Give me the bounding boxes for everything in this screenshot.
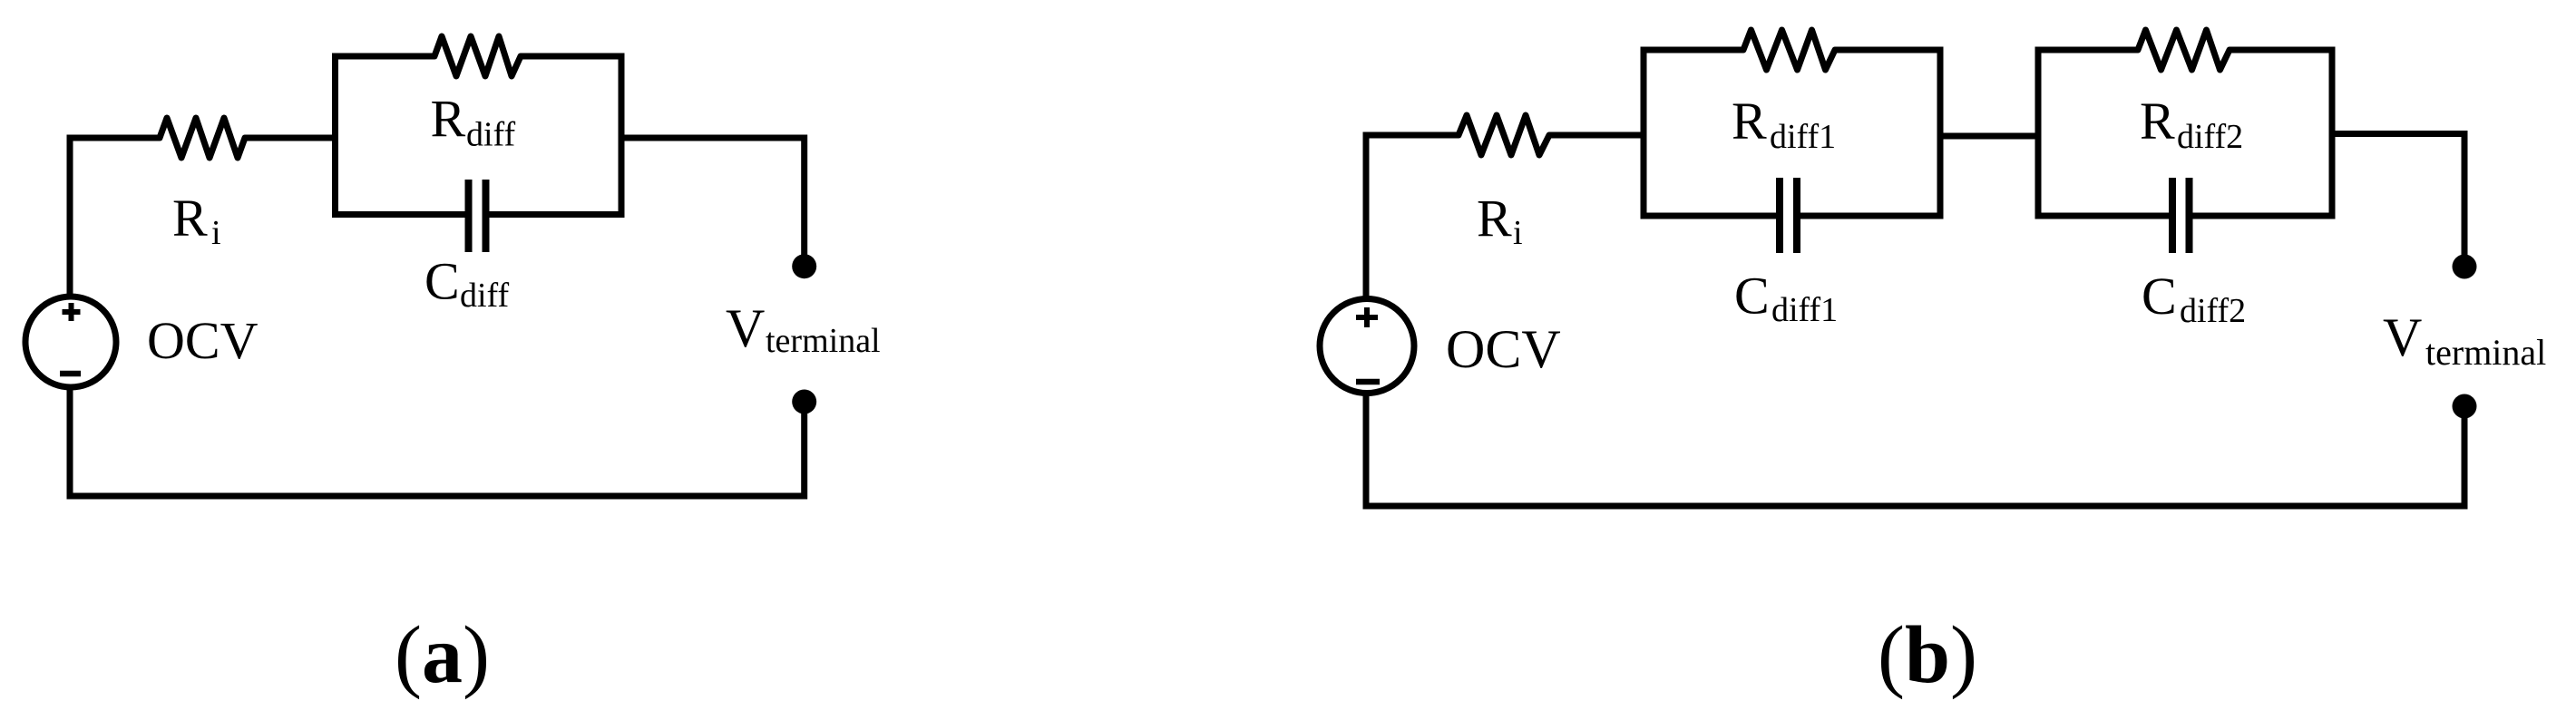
svg-text:diff2: diff2 (2177, 118, 2243, 156)
svg-text:(a): (a) (395, 610, 490, 700)
wire : box2 (b) bottom edge left segment (2035, 213, 2170, 219)
wire : circuit (b) top wire with resistor Ri zigzag (1363, 115, 1647, 155)
svg-text:OCV: OCV (147, 311, 259, 370)
plus sign of source (b) (1356, 307, 1378, 327)
wire : box1 (b) bottom edge left segment (1641, 213, 1777, 219)
svg-text:diff2: diff2 (2180, 292, 2246, 330)
svg-text:R: R (1477, 190, 1512, 248)
svg-text:C: C (424, 252, 460, 311)
svg-text:terminal: terminal (766, 322, 881, 360)
resistor R_diff1 zigzag on top edge of box1 (b) (1641, 30, 1944, 70)
svg-text:diff1: diff1 (1770, 118, 1836, 156)
capacitor C_diff plates (a) (469, 180, 486, 252)
svg-text:V: V (726, 298, 765, 358)
wire : link between box1 and box2 (b) (1937, 133, 2042, 140)
minus sign of source (b) (1356, 379, 1380, 385)
voltage source OCV circle (a) (25, 297, 116, 387)
voltage source OCV circle (b) (1320, 299, 1414, 394)
wire : circuit (b) outer loop (right vertical, bottom wire, left vertical) (1366, 135, 2464, 506)
svg-text:diff: diff (460, 277, 510, 315)
wire : box (a) bottom edge right segment (490, 211, 625, 218)
svg-text:(b): (b) (1878, 610, 1977, 700)
svg-text:OCV: OCV (1446, 319, 1561, 379)
svg-text:i: i (211, 214, 221, 252)
resistor R_diff2 parallel box (b) : left edge (2035, 47, 2042, 219)
minus sign of source (a) (60, 371, 81, 377)
wire : circuit (a) output wire to terminal (619, 138, 805, 267)
svg-text:C: C (1734, 267, 1770, 326)
svg-text:i: i (1513, 214, 1523, 252)
wire : circuit (a) top wire with resistor Ri zigzag (67, 118, 339, 158)
svg-text:V: V (2383, 307, 2422, 367)
svg-text:terminal: terminal (2425, 332, 2546, 373)
plus sign of source (a) (63, 303, 81, 321)
svg-text:R: R (1732, 92, 1767, 151)
node : terminal dot bottom (a) (792, 390, 816, 414)
node : terminal dot bottom (b) (2453, 394, 2477, 419)
resistor R_diff1 parallel box (b) : right edge (1937, 47, 1944, 219)
resistor R_diff2 parallel box (b) : right edge (2329, 47, 2336, 219)
node : terminal dot top (a) (792, 254, 816, 278)
resistor R_diff parallel box (a) : left edge (332, 54, 338, 219)
wire : circuit (a) outer loop (right vertical, bottom wire, left vertical) (70, 138, 805, 496)
node : terminal dot top (b) (2453, 255, 2477, 279)
capacitor C_diff1 plates (b) (1780, 178, 1797, 253)
capacitor C_diff2 plates (b) (2172, 178, 2190, 253)
resistor R_diff1 parallel box (b) : left edge (1641, 47, 1647, 219)
resistor R_diff parallel box (a) : right edge (619, 54, 625, 219)
svg-text:R: R (172, 189, 208, 248)
wire : box (a) bottom edge left segment (332, 211, 465, 218)
wire : box2 (b) bottom edge right segment (2193, 213, 2336, 219)
svg-text:diff: diff (466, 116, 516, 154)
resistor R_diff2 zigzag on top edge of box2 (b) (2035, 30, 2336, 70)
resistor R_diff zigzag on top edge of box (a) (332, 36, 625, 76)
wire : circuit (b) output wire to terminal (2329, 134, 2465, 268)
wire : box1 (b) bottom edge right segment (1800, 213, 1944, 219)
svg-text:R: R (431, 90, 466, 149)
svg-text:R: R (2140, 92, 2175, 151)
svg-text:C: C (2142, 267, 2177, 326)
svg-text:diff1: diff1 (1771, 291, 1838, 329)
